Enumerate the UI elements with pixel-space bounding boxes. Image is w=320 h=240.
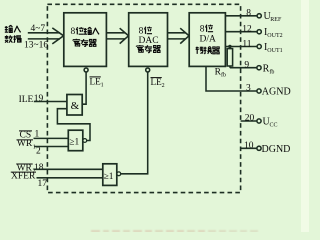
- svg-text:LE: LE: [151, 77, 163, 87]
- svg-text:XFER: XFER: [11, 172, 36, 182]
- svg-text:CC: CC: [270, 122, 278, 128]
- node LE2 bubble under U2: [146, 68, 150, 72]
- svg-text:2: 2: [36, 147, 41, 157]
- svg-text:REF: REF: [270, 17, 282, 23]
- svg-text:8: 8: [71, 27, 76, 37]
- svg-text:3: 3: [246, 84, 251, 94]
- input bus arrowhead: [52, 28, 63, 44]
- svg-text:ILE: ILE: [19, 95, 34, 105]
- signal WR1 pin 2: [17, 139, 42, 156]
- wire and-gate output to LE1 bubble: [82, 72, 86, 104]
- svg-text:≥1: ≥1: [104, 172, 114, 182]
- node bubble at U5 output: [83, 139, 87, 143]
- nor gate U6 (>=1): [103, 164, 117, 186]
- svg-text:≥1: ≥1: [69, 138, 79, 148]
- wire U5 output to and-gate input: [57, 109, 90, 141]
- label Rfb (value): [215, 68, 226, 79]
- svg-text:9: 9: [244, 61, 249, 71]
- svg-text:2: 2: [162, 83, 165, 89]
- junction on IOUT1 line: [228, 45, 231, 48]
- and gate U4: [67, 95, 82, 116]
- chip boundary dashed box: [47, 4, 240, 192]
- pin 12 IOUT2: [225, 25, 282, 40]
- node bubble at U6 output: [117, 172, 121, 176]
- label LE2: [151, 77, 165, 89]
- svg-text:11: 11: [242, 39, 251, 49]
- svg-text:19: 19: [34, 94, 44, 104]
- input data bus wires: [28, 33, 60, 39]
- wire WR1 to nor gate U5: [35, 146, 69, 148]
- svg-text:17: 17: [38, 179, 48, 189]
- svg-text:18: 18: [34, 163, 44, 173]
- bus arrow U2 to U3: [168, 33, 186, 39]
- pin 10 DGND: [241, 141, 291, 155]
- pin 8 UREF: [225, 9, 282, 24]
- bus arrow U1 to U2: [106, 33, 125, 39]
- svg-text:WR: WR: [17, 139, 33, 149]
- pin 9 Rfb: [230, 61, 275, 76]
- background right light band: [301, 0, 309, 232]
- svg-text:D/A: D/A: [200, 35, 217, 45]
- wire XFER to nor gate U6: [37, 177, 103, 179]
- wire ILE to and gate: [34, 101, 67, 103]
- label LE1: [90, 77, 104, 89]
- svg-text:OUT1: OUT1: [267, 48, 282, 54]
- register U2: 8-bit DAC register (8位DAC寄存器): [129, 13, 168, 67]
- svg-text:&: &: [71, 100, 80, 112]
- nor gate U5 (>=1): [68, 130, 83, 151]
- wire U3 bottom to AGND pin: [206, 66, 257, 91]
- svg-text:8: 8: [200, 25, 205, 35]
- svg-text:DGND: DGND: [262, 144, 291, 155]
- svg-text:fb: fb: [221, 72, 226, 79]
- svg-text:OUT2: OUT2: [267, 33, 282, 39]
- node LE1 bubble under U1: [84, 68, 88, 72]
- resistor Rfb: [227, 47, 232, 68]
- signal ILE pin 19: [19, 94, 44, 105]
- svg-text:DAC: DAC: [139, 36, 159, 46]
- pin 3 AGND: [246, 84, 291, 98]
- svg-text:8: 8: [246, 9, 251, 19]
- svg-text:AGND: AGND: [262, 87, 291, 98]
- pin 11 IOUT1: [225, 39, 282, 54]
- wire CS to nor gate U5: [34, 137, 69, 139]
- converter U3: 8-bit D/A converter (8位D/A转换器): [189, 13, 225, 67]
- caption (red, cropped at bottom): [91, 230, 258, 232]
- svg-text:10: 10: [244, 141, 254, 151]
- svg-text:fb: fb: [269, 69, 274, 76]
- signal WR2 pin 18: [16, 163, 44, 174]
- svg-text:1: 1: [101, 82, 104, 88]
- svg-text:20: 20: [245, 113, 255, 123]
- wire U6 output to LE2 bubble: [121, 72, 148, 174]
- pin 20 UCC: [241, 113, 278, 128]
- input data label (输入 / 数据): [5, 25, 21, 42]
- svg-text:13~16: 13~16: [24, 41, 48, 51]
- svg-text:LE: LE: [90, 77, 102, 87]
- signal CS pin 1: [19, 130, 40, 141]
- register U1: 8-bit input register (8位输入寄存器): [64, 13, 107, 67]
- signal XFER pin 17: [11, 172, 47, 190]
- svg-text:12: 12: [242, 25, 252, 35]
- wire WR2 to nor gate U6: [34, 168, 103, 170]
